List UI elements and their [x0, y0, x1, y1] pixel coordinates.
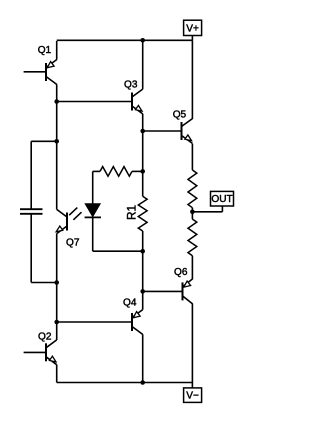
- wire Q7 emitter down: [56, 234, 58, 283]
- svg-text:Q2: Q2: [38, 332, 52, 343]
- wire diode branch top: [92, 171, 94, 203]
- wire V- drop: [191, 383, 193, 388]
- node R1 bottom/diode: [140, 249, 145, 254]
- optical coupling slashes at Q7: [69, 208, 81, 220]
- svg-text:V−: V−: [186, 391, 199, 402]
- wire cap branch top: [31, 140, 57, 142]
- wire V+ drop: [191, 36, 193, 41]
- wire Q6 collector to bottom rail: [191, 303, 193, 382]
- node Q1/Q3 base: [54, 99, 59, 104]
- transistor Q6: [183, 279, 193, 304]
- wire diode node to Q6 base node: [142, 251, 144, 291]
- node OUT: [190, 210, 195, 215]
- wire Q7 node to Q4 base node: [56, 283, 58, 323]
- svg-text:Q4: Q4: [123, 297, 137, 308]
- wire Q1 collector down: [56, 84, 58, 101]
- resistor upper output (unlabeled): [188, 170, 197, 208]
- transistor Q1: [46, 60, 57, 85]
- svg-text:V+: V+: [186, 23, 199, 34]
- node Q5 base: [140, 129, 145, 134]
- wire V+ to Q5 collector: [191, 40, 193, 119]
- node Q4 base/Q2 collector: [54, 320, 59, 325]
- terminal V&#8722;: [184, 388, 202, 403]
- svg-text:Q3: Q3: [124, 79, 138, 90]
- wire Q4 emitter up: [142, 291, 144, 309]
- svg-text:OUT: OUT: [211, 194, 232, 205]
- wire Q2 base stub: [24, 351, 46, 353]
- terminal OUT: [211, 191, 234, 206]
- wire Q5 base line: [143, 130, 182, 132]
- transistor Q4: [132, 310, 143, 335]
- transistor Q3: [132, 89, 143, 114]
- wire Q3 collector to rail: [142, 40, 144, 89]
- svg-text:Q6: Q6: [174, 267, 188, 278]
- wire Q6 base line: [143, 290, 183, 292]
- node top rail junction: [140, 38, 145, 43]
- wire Q2 collector up: [56, 322, 58, 340]
- wire horizontal resistor left lead: [93, 170, 100, 172]
- wire cap branch bottom: [30, 214, 32, 283]
- svg-text:Q1: Q1: [38, 45, 52, 56]
- node cap branch: [54, 139, 59, 144]
- transistor Q2: [46, 340, 57, 365]
- wire Q5 emitter to resistor: [191, 144, 193, 170]
- wire diode return: [93, 250, 143, 252]
- diode D1: [85, 204, 101, 218]
- wire left column to cap branch: [56, 102, 58, 142]
- wire lower resistor to Q6 emitter: [191, 256, 193, 280]
- resistor R1: [138, 196, 147, 231]
- wire top V+ rail: [57, 39, 193, 41]
- wire OUT tap: [192, 211, 222, 213]
- wire diode branch bottom: [92, 218, 94, 252]
- wire Q1 emitter to rail: [56, 41, 58, 60]
- wire Q3 base line: [57, 101, 132, 103]
- wire mid column to resistor node: [142, 131, 144, 196]
- wire left column to Q7 collector: [56, 141, 58, 209]
- wire Q4 collector to bottom rail: [142, 334, 144, 382]
- node Q6 base/Q4 emitter: [140, 289, 145, 294]
- node resistor/R1 top: [140, 169, 145, 174]
- node cap return/Q7 emitter: [54, 280, 59, 285]
- transistor Q5: [182, 119, 193, 144]
- node bottom rail junction: [140, 380, 145, 385]
- svg-text:Q7: Q7: [66, 237, 80, 248]
- wire horizontal resistor right lead: [132, 170, 143, 172]
- svg-text:Q5: Q5: [173, 110, 187, 121]
- resistor horizontal (unlabeled): [100, 167, 132, 177]
- wire Q2 emitter down: [56, 365, 58, 383]
- wire bottom rail: [57, 382, 193, 384]
- wire Q1 base stub: [24, 71, 46, 73]
- terminal V+: [184, 20, 202, 35]
- capacitor (compensation): [20, 209, 43, 214]
- transistor Q7: [56, 209, 67, 233]
- svg-text:R1: R1: [124, 205, 138, 220]
- wire resistor to OUT node: [191, 208, 193, 219]
- wire Q3 emitter to Q5 base node: [142, 114, 144, 131]
- wire R1 bottom to diode node: [142, 231, 144, 251]
- wire Q4 base line: [57, 321, 132, 323]
- resistor lower output (unlabeled): [188, 219, 197, 256]
